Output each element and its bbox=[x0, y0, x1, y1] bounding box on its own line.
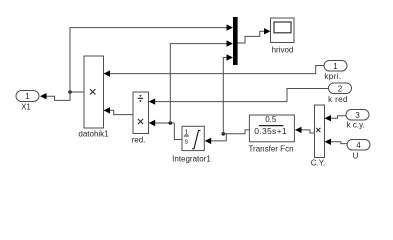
wire U to C.Y. input 2 bbox=[330, 142, 347, 144]
arrowhead into datohik1 input 2 bbox=[104, 107, 111, 113]
wire datohik1 output stub to junction bbox=[70, 91, 84, 93]
svg-text:Integrator1: Integrator1 bbox=[172, 154, 211, 163]
outport X1 oval bbox=[16, 91, 39, 102]
svg-text:U: U bbox=[353, 152, 359, 161]
scope hrivod bbox=[271, 18, 295, 43]
wire kpri. to datohik1 input 1 bbox=[109, 66, 325, 74]
inport U bbox=[347, 140, 370, 151]
svg-text:1: 1 bbox=[333, 62, 338, 71]
svg-text:kpri.: kpri. bbox=[324, 72, 341, 81]
arrowhead into mux input 2 bbox=[227, 40, 234, 46]
arrowhead into mux input 1 bbox=[227, 24, 234, 30]
arrowhead into red. input 2 bbox=[149, 120, 156, 126]
node junction dot on integrator output line bbox=[169, 121, 173, 125]
wire k red to red. input 1 bbox=[154, 89, 329, 102]
svg-text:s: s bbox=[185, 139, 189, 146]
svg-text:0.5: 0.5 bbox=[265, 115, 277, 124]
mux bbox=[233, 17, 238, 65]
product C.Y. bbox=[315, 105, 325, 158]
wire Integrator1 output to red. input 2 bbox=[154, 123, 182, 140]
wire branch up to mux input 1 bbox=[70, 28, 228, 92]
svg-text:1: 1 bbox=[184, 130, 188, 137]
svg-text:k red: k red bbox=[328, 95, 348, 104]
wire red. output to datohik1 input 2 bbox=[109, 110, 133, 114]
svg-text:3: 3 bbox=[355, 111, 360, 120]
wire mux output to scope bbox=[238, 31, 265, 43]
arrowhead into Integrator1 bbox=[205, 138, 212, 144]
arrowhead into C.Y. input 2 bbox=[325, 139, 332, 145]
arrowhead into scope bbox=[264, 28, 271, 34]
svg-text:0.35s+1: 0.35s+1 bbox=[254, 126, 287, 136]
arrowhead into red. input 1 bbox=[149, 98, 156, 104]
wire jog to Integrator1 input bbox=[210, 134, 226, 141]
arrowhead into datohik1 input 1 bbox=[104, 70, 111, 76]
divide red. bbox=[133, 92, 149, 134]
wire branch up to mux input 3 bbox=[223, 58, 227, 134]
transfer fcn bbox=[249, 115, 294, 142]
inport k red bbox=[329, 83, 352, 94]
arrowhead into mux input 3 bbox=[227, 54, 234, 60]
wire Transfer Fcn output to junction bbox=[223, 130, 249, 134]
svg-text:2: 2 bbox=[338, 85, 343, 94]
svg-text:k c.y.: k c.y. bbox=[347, 121, 365, 130]
integrator Integrator1 bbox=[182, 126, 204, 150]
svg-text:red.: red. bbox=[132, 136, 146, 145]
svg-text:datohik1: datohik1 bbox=[78, 130, 109, 139]
arrowhead into outport X1 bbox=[40, 93, 47, 99]
wire C.Y. output to Transfer Fcn input bbox=[301, 130, 315, 133]
svg-text:1: 1 bbox=[25, 92, 30, 101]
wire k c.y. to C.Y. input 1 bbox=[330, 116, 346, 119]
svg-text:Transfer Fcn: Transfer Fcn bbox=[248, 145, 293, 154]
inport k c.y. bbox=[346, 110, 369, 121]
svg-text:C.Y.: C.Y. bbox=[311, 159, 326, 168]
wire branch up to mux input 2 bbox=[170, 44, 227, 123]
product datohik1 bbox=[84, 56, 104, 128]
node junction dot on transfer fcn output line bbox=[222, 132, 226, 136]
svg-text:4: 4 bbox=[356, 141, 361, 150]
arrowhead into Transfer Fcn bbox=[295, 127, 302, 133]
wire branch down-left to outport X1 bbox=[45, 92, 70, 100]
arrowhead into C.Y. input 1 bbox=[325, 115, 332, 121]
node junction dot at datohik1 output bbox=[68, 90, 72, 94]
svg-text:X1: X1 bbox=[21, 103, 31, 112]
inport kpri. bbox=[324, 61, 347, 72]
svg-text:hrivod: hrivod bbox=[272, 46, 294, 55]
